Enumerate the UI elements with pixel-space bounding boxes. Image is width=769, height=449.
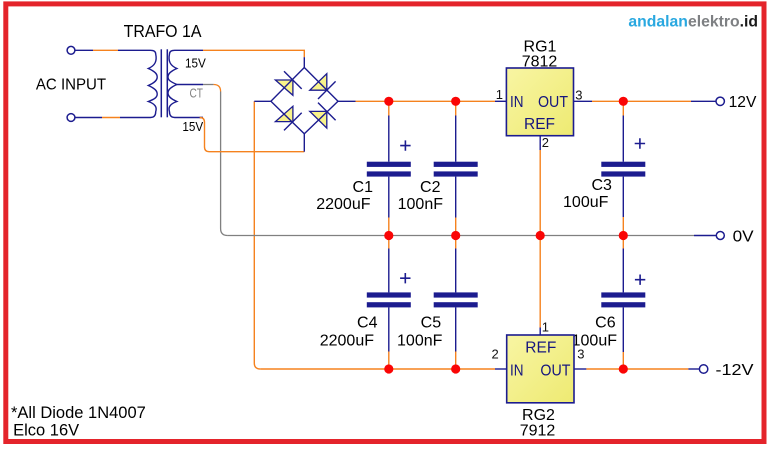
- junction C2 0V rail: [451, 231, 460, 240]
- svg-text:C1: C1: [353, 179, 374, 196]
- svg-text:IN: IN: [510, 94, 524, 111]
- svg-text:2: 2: [542, 135, 549, 150]
- junction C6 negative rail: [619, 364, 628, 373]
- terminal AC top: [67, 46, 75, 54]
- junction C2 positive rail: [451, 97, 460, 106]
- capacitor C3: [601, 162, 645, 177]
- wire bridge negative drop: [254, 101, 260, 369]
- svg-text:15V: 15V: [182, 120, 203, 134]
- svg-text:2200uF: 2200uF: [320, 333, 374, 350]
- svg-text:C5: C5: [421, 315, 442, 332]
- svg-text:-12V: -12V: [716, 362, 754, 379]
- junction C3 positive rail: [619, 97, 628, 106]
- svg-text:2: 2: [491, 347, 498, 362]
- wire CT run: [203, 84, 214, 86]
- capacitor C2: [434, 162, 478, 177]
- wire negative rail: [260, 368, 495, 370]
- terminal AC bottom: [67, 114, 75, 122]
- wire secondary bottom to bridge bottom: [200, 117, 203, 119]
- capacitor C4: [367, 292, 411, 307]
- wire C3 C6 column: [622, 101, 624, 369]
- svg-text:100nF: 100nF: [398, 196, 444, 213]
- svg-text:REF: REF: [524, 116, 555, 133]
- diode D2 cathode bar: [318, 81, 336, 99]
- capacitor C1: [367, 162, 411, 177]
- junction C5 negative rail: [451, 364, 460, 373]
- svg-text:C6: C6: [595, 315, 616, 332]
- diode D4 cathode bar: [318, 103, 336, 121]
- svg-text:15V: 15V: [185, 57, 206, 71]
- svg-text:andalanelektro.id: andalanelektro.id: [628, 13, 758, 30]
- capacitor C6: [601, 292, 645, 307]
- diode D1 cathode bar: [284, 71, 302, 89]
- wire secondary top to bridge: [203, 50, 304, 57]
- transformer T1 secondary winding upper: [168, 50, 203, 84]
- svg-text:C3: C3: [591, 177, 612, 194]
- svg-text:OUT: OUT: [540, 363, 570, 380]
- svg-text:1: 1: [496, 87, 503, 102]
- diode D3 triangle bottom-left: [275, 106, 293, 121]
- svg-text:2200uF: 2200uF: [316, 196, 370, 213]
- junction C4 negative rail: [384, 364, 393, 373]
- svg-text:7912: 7912: [520, 423, 556, 440]
- junction C3 C6 0V rail: [619, 231, 628, 240]
- diode D4 triangle bottom-right: [310, 111, 327, 128]
- svg-text:0V: 0V: [733, 228, 754, 245]
- regulator RG2 7912: [507, 335, 574, 403]
- transformer T1 core: [160, 49, 162, 117]
- svg-text:C2: C2: [420, 179, 441, 196]
- junction C1 positive rail: [384, 97, 393, 106]
- diode D1 triangle top-left: [275, 80, 293, 95]
- svg-text:3: 3: [577, 347, 584, 362]
- diode D2 triangle top-right: [310, 74, 327, 91]
- svg-text:100nF: 100nF: [397, 333, 443, 350]
- wire AC bottom: [75, 117, 151, 119]
- terminal -12V: [699, 365, 707, 373]
- svg-text:*All Diode 1N4007: *All Diode 1N4007: [11, 404, 146, 422]
- svg-text:1: 1: [542, 320, 549, 335]
- capacitor C5: [434, 292, 478, 307]
- transformer T1 secondary winding lower: [168, 85, 203, 118]
- svg-text:12V: 12V: [729, 94, 757, 111]
- svg-text:CT: CT: [190, 87, 204, 101]
- wire positive rail: [338, 100, 356, 102]
- svg-text:RG2: RG2: [522, 407, 555, 424]
- svg-text:3: 3: [575, 87, 582, 102]
- svg-text:Elco 16V: Elco 16V: [13, 421, 79, 439]
- svg-text:C4: C4: [357, 315, 378, 332]
- wire C2 column: [455, 101, 457, 369]
- svg-text:REF: REF: [525, 340, 556, 357]
- svg-text:7812: 7812: [522, 54, 558, 71]
- terminal 0V: [716, 232, 724, 240]
- bridge rectifier diamond: [271, 68, 338, 134]
- svg-text:OUT: OUT: [538, 94, 568, 111]
- wire AC top: [75, 49, 151, 51]
- svg-text:TRAFO 1A: TRAFO 1A: [124, 21, 202, 41]
- wire C1 column: [388, 101, 390, 369]
- junction C1 0V rail: [384, 231, 393, 240]
- svg-text:100uF: 100uF: [563, 194, 609, 211]
- svg-text:IN: IN: [510, 363, 524, 380]
- svg-text:AC INPUT: AC INPUT: [36, 76, 106, 93]
- wire 0V rail: [228, 235, 694, 237]
- transformer T1 primary winding: [148, 50, 157, 117]
- wire regulator REF column: [539, 136, 541, 150]
- diode D3 cathode bar: [284, 113, 302, 131]
- terminal +12V: [716, 97, 724, 105]
- regulator RG1 7812: [506, 68, 573, 136]
- junction REF 0V rail: [536, 231, 545, 240]
